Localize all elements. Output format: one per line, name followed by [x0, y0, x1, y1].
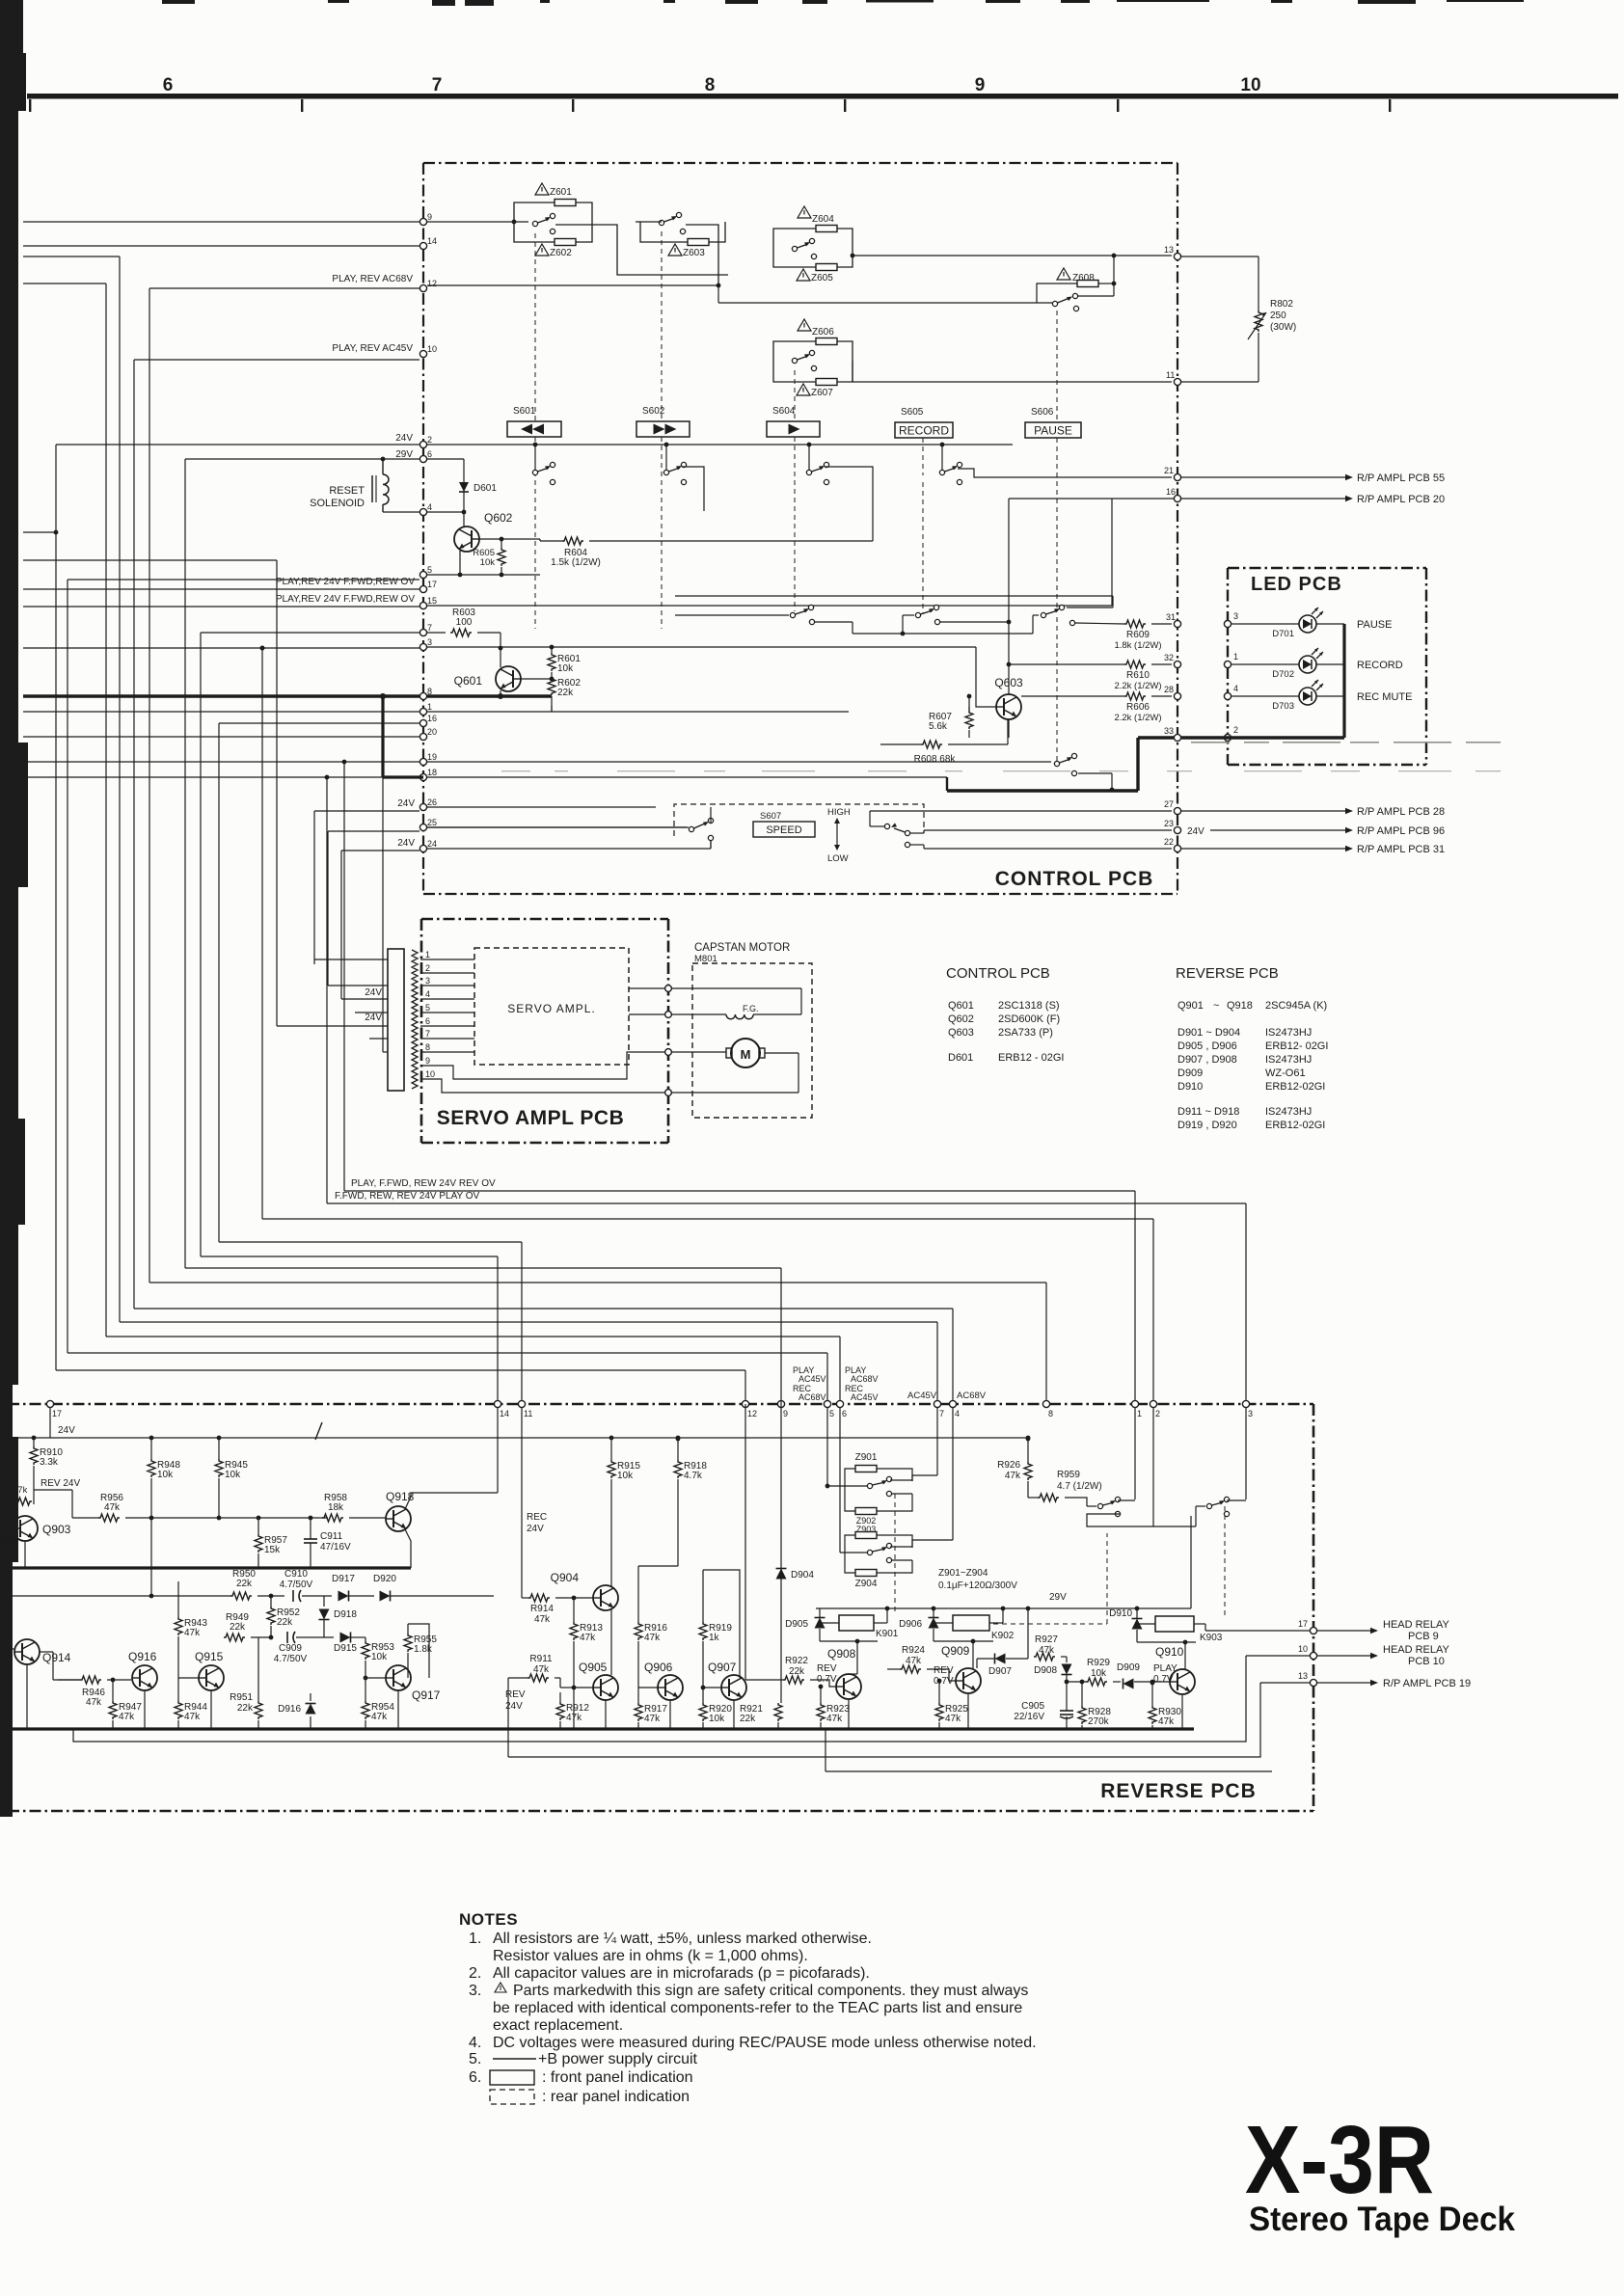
svg-text:R927: R927: [1035, 1634, 1058, 1645]
svg-text:SPEED: SPEED: [766, 824, 801, 836]
wire motor: [672, 1051, 726, 1053]
svg-text:Q914: Q914: [42, 1651, 71, 1664]
wire R/P AMPL PCB 20: [1181, 498, 1345, 500]
svg-text:AC45V: AC45V: [907, 1391, 937, 1401]
svg-text:R926: R926: [997, 1460, 1020, 1471]
resistor R913: [570, 1622, 578, 1640]
wire s607b wires: [869, 811, 871, 826]
wire pin25 row: [427, 826, 687, 828]
svg-text:22k: 22k: [557, 688, 574, 698]
diode D908: [1066, 1657, 1068, 1662]
transistor Q918: [386, 1506, 411, 1531]
svg-text:SOLENOID: SOLENOID: [310, 498, 365, 509]
svg-text:21: 21: [1164, 466, 1174, 475]
svg-text:PAUSE: PAUSE: [1034, 424, 1072, 438]
resistor R914: [528, 1594, 550, 1602]
svg-text:D916: D916: [278, 1704, 301, 1715]
wire Z606 loop: [773, 341, 816, 361]
svg-text:22k: 22k: [236, 1579, 253, 1589]
svg-text:LED PCB: LED PCB: [1251, 574, 1342, 595]
svg-text:RECORD: RECORD: [1357, 660, 1403, 671]
svg-text:17: 17: [427, 580, 437, 589]
svg-text:Q915: Q915: [195, 1650, 224, 1663]
top edge remnants: [162, 0, 195, 4]
svg-text:6: 6: [427, 449, 432, 459]
svg-text:C905: C905: [1021, 1701, 1044, 1712]
wire S601a out: [555, 225, 728, 275]
resistor R911: [528, 1674, 549, 1682]
transistor Q601: [496, 666, 521, 691]
wire pin1 row: [427, 711, 849, 713]
svg-text:Z604: Z604: [812, 214, 834, 225]
wire thick drop: [1136, 738, 1139, 791]
wire 1624 node: [638, 1565, 678, 1567]
wire below rail 1: [73, 1656, 1246, 1742]
fusible resistor Z607: [816, 379, 837, 386]
svg-text:PLAY,REV 24V F.FWD,REW OV: PLAY,REV 24V F.FWD,REW OV: [276, 594, 415, 605]
wire r919 top: [703, 1570, 740, 1678]
svg-text:R911: R911: [529, 1654, 553, 1664]
svg-text:4: 4: [425, 989, 430, 999]
svg-text:HEAD RELAY: HEAD RELAY: [1383, 1619, 1450, 1631]
wire pin2 24V feed: [56, 444, 420, 446]
wire R602 bottom: [551, 696, 553, 712]
switch S607 a: [689, 826, 693, 831]
svg-text:11: 11: [524, 1409, 532, 1418]
svg-text:2SA733 (P): 2SA733 (P): [998, 1027, 1053, 1039]
resistor R610: [1124, 661, 1146, 668]
svg-text:AC45V: AC45V: [798, 1374, 826, 1384]
resistor R929: [1086, 1678, 1107, 1686]
svg-text:D907: D907: [988, 1666, 1012, 1677]
svg-text:2.: 2.: [469, 1965, 481, 1982]
wire pin26 24V feed: [314, 810, 420, 812]
svg-text:D908: D908: [1034, 1665, 1057, 1676]
svg-text:Q917: Q917: [412, 1688, 441, 1702]
svg-text:Q601: Q601: [454, 674, 483, 688]
svg-text:R959: R959: [1057, 1470, 1080, 1480]
relay cell 2 D906 K902: [929, 1618, 939, 1629]
svg-text:8: 8: [705, 75, 716, 95]
svg-text:47k: 47k: [533, 1664, 550, 1675]
wire pin14 feed: [23, 245, 420, 247]
resistor R956: [98, 1514, 120, 1522]
svg-text:47k: 47k: [13, 1485, 28, 1496]
svg-text:Q916: Q916: [128, 1650, 157, 1663]
svg-text:4: 4: [955, 1409, 960, 1418]
wire pin13 row: [853, 255, 1172, 257]
svg-text:12: 12: [747, 1409, 757, 1418]
svg-text:PAUSE: PAUSE: [1357, 619, 1392, 631]
resistor R928: [1078, 1706, 1086, 1724]
fusible resistor Z602: [555, 239, 576, 246]
wire group2 throw: [1245, 1408, 1247, 1499]
wire led cathode bus thick: [1342, 624, 1345, 738]
svg-text:PLAY, REV AC68V: PLAY, REV AC68V: [332, 274, 413, 284]
wire k903 right vert: [1190, 1516, 1192, 1608]
wire pin2 column: [1152, 1408, 1154, 1526]
svg-text:R/P AMPL PCB 55: R/P AMPL PCB 55: [1357, 473, 1445, 484]
svg-text:4.7/50V: 4.7/50V: [280, 1580, 313, 1590]
svg-text:20: 20: [427, 727, 437, 737]
capacitor C905: [1060, 1710, 1073, 1712]
svg-text:7: 7: [939, 1409, 944, 1418]
svg-text:Z901: Z901: [855, 1452, 878, 1463]
svg-text:D917: D917: [332, 1574, 355, 1584]
servo border circles: [665, 986, 672, 992]
svg-text:29V: 29V: [395, 449, 413, 460]
switch S604 contact B: [792, 358, 797, 363]
diode D917: [338, 1591, 349, 1602]
svg-text:8: 8: [425, 1042, 430, 1052]
wire 24V pin23: [1210, 829, 1345, 831]
svg-text:24: 24: [427, 839, 437, 849]
wire pin16 feed: [219, 722, 420, 724]
svg-text:2: 2: [1233, 725, 1238, 735]
servo connector coil: [412, 950, 418, 1089]
wire q905: [605, 1700, 607, 1729]
wire q915 base: [178, 1677, 199, 1679]
svg-text:Z605: Z605: [811, 273, 833, 284]
wire pin8 thick bus: [23, 694, 420, 697]
svg-text:M801: M801: [694, 954, 717, 964]
svg-text:ERB12- 02GI: ERB12- 02GI: [1265, 1040, 1328, 1052]
resistor R954: [362, 1701, 369, 1719]
wire pin7 feed: [201, 632, 420, 634]
svg-text:8: 8: [1048, 1409, 1053, 1418]
wire q904 collector: [610, 1479, 612, 1587]
svg-text:7: 7: [432, 75, 443, 95]
svg-text:Z608: Z608: [1072, 273, 1095, 284]
svg-text:R/P AMPL PCB 28: R/P AMPL PCB 28: [1357, 806, 1445, 818]
resistor R919: [699, 1622, 707, 1640]
svg-text:22k: 22k: [740, 1714, 756, 1724]
svg-text:Q602: Q602: [484, 511, 513, 525]
wire q908: [848, 1699, 850, 1729]
wire pin3 row: [427, 646, 552, 648]
capacitor C910: [292, 1590, 294, 1602]
switch S604 contact A: [792, 246, 797, 251]
svg-text:Q903: Q903: [42, 1523, 71, 1536]
wire rp ampl 19: [1317, 1682, 1370, 1684]
svg-text:PCB 9: PCB 9: [1408, 1631, 1439, 1642]
svg-text:47k: 47k: [104, 1502, 121, 1513]
svg-text:33: 33: [1164, 726, 1174, 736]
svg-text:7: 7: [427, 623, 432, 633]
svg-text:9: 9: [425, 1056, 430, 1066]
wire pin3 feed: [23, 647, 420, 649]
svg-text:HIGH: HIGH: [827, 807, 851, 818]
svg-text:3.: 3.: [469, 1983, 481, 1999]
CAPSTAN MOTOR dashed box: [692, 963, 812, 1118]
svg-text:16: 16: [1166, 487, 1176, 497]
wire s607a out: [710, 807, 712, 824]
wire S602a: [640, 222, 688, 242]
led D703: [1299, 688, 1316, 705]
svg-text:4.: 4.: [469, 2035, 481, 2051]
wire Q601 emitter: [500, 690, 501, 696]
wire Z601 loop: [514, 203, 555, 222]
svg-text:10k: 10k: [709, 1714, 725, 1724]
svg-text:R924: R924: [902, 1645, 925, 1656]
wire R/P AMPL PCB 55: [1181, 476, 1345, 478]
left scan edge bar: [0, 0, 23, 93]
wire Q601 base: [521, 678, 552, 680]
wire below rail 3: [826, 1770, 1272, 1772]
resistor R947: [109, 1701, 117, 1719]
svg-text:S601: S601: [513, 406, 536, 417]
scan smudge row 770: [1191, 742, 1230, 743]
svg-text:K903: K903: [1200, 1633, 1223, 1643]
svg-text:2: 2: [1155, 1409, 1160, 1418]
wire pin15 feed: [23, 606, 420, 608]
svg-text:16: 16: [427, 714, 437, 723]
resistor R930: [1149, 1706, 1156, 1724]
wire R/P AMPL PCB 28: [1181, 810, 1345, 812]
svg-text:47k: 47k: [184, 1712, 201, 1722]
transistor Q603: [996, 694, 1021, 719]
svg-text:22/16V: 22/16V: [1014, 1712, 1044, 1722]
svg-text:Q918: Q918: [386, 1490, 415, 1503]
speed dashed frame: [674, 804, 924, 836]
wire pin24 row: [427, 848, 711, 850]
svg-text:17: 17: [52, 1409, 62, 1418]
svg-text:47k: 47k: [1005, 1471, 1021, 1481]
wire S602a out: [686, 225, 718, 285]
wire head relay 10: [1317, 1655, 1370, 1657]
connector pins control left: [420, 218, 426, 225]
svg-text:IS2473HJ: IS2473HJ: [1265, 1027, 1312, 1039]
svg-text:F.G.: F.G.: [743, 1004, 759, 1013]
wire row2 b out: [940, 621, 1009, 623]
wire servo feeds: [314, 959, 388, 960]
wire r923 top: [820, 1687, 822, 1703]
svg-text:47k: 47k: [1039, 1645, 1055, 1656]
svg-text:D703: D703: [1272, 701, 1294, 712]
svg-text:10k: 10k: [480, 557, 496, 568]
svg-text:24V: 24V: [365, 987, 382, 998]
svg-text:4: 4: [427, 502, 432, 512]
svg-text:D901 ~ D904: D901 ~ D904: [1177, 1027, 1240, 1039]
svg-text:3: 3: [1233, 611, 1238, 621]
svg-text:R610: R610: [1126, 670, 1150, 681]
diode D915: [340, 1633, 351, 1643]
resistor R952: [267, 1607, 275, 1625]
resistor R925: [935, 1703, 943, 1721]
wire Z604 loop: [773, 229, 816, 249]
resistor R943: [175, 1617, 182, 1635]
svg-text:D911 ~ D918: D911 ~ D918: [1177, 1106, 1239, 1118]
svg-text:10k: 10k: [157, 1470, 174, 1480]
wire Z607 out: [852, 361, 853, 382]
svg-text:Z602: Z602: [550, 248, 572, 258]
resistor R922: [783, 1676, 804, 1684]
svg-text:Q908: Q908: [827, 1647, 856, 1661]
svg-text:REV: REV: [934, 1665, 954, 1676]
svg-text:R802: R802: [1270, 299, 1293, 310]
svg-text:47k: 47k: [644, 1633, 661, 1643]
switch S605 row1: [939, 470, 944, 474]
svg-text:47k: 47k: [644, 1714, 661, 1724]
wire pin16 link: [1009, 498, 1174, 500]
diode D918: [323, 1596, 325, 1607]
transistor Q910: [1170, 1669, 1195, 1694]
svg-text:Q910: Q910: [1155, 1645, 1184, 1659]
capacitor C911: [304, 1538, 317, 1540]
svg-text:Q907: Q907: [708, 1661, 737, 1674]
wire staircase bends to REVERSE pins: [56, 1369, 745, 1371]
svg-text:1: 1: [1137, 1409, 1142, 1418]
svg-text:Q603: Q603: [948, 1027, 974, 1039]
svg-text:28: 28: [1164, 685, 1174, 694]
transistor Q602: [454, 527, 479, 552]
svg-text:Resistor values are in ohms (k: Resistor values are in ohms (k = 1,000 o…: [493, 1948, 808, 1964]
svg-text:C911: C911: [320, 1531, 343, 1542]
svg-text:2SC945A (K): 2SC945A (K): [1265, 1000, 1327, 1012]
LED pins: [1224, 620, 1231, 627]
wire Q603 emitter: [1008, 719, 1010, 738]
svg-text:NOTES: NOTES: [459, 1910, 518, 1929]
svg-text:RESET: RESET: [329, 485, 365, 497]
transistor Q914: [14, 1639, 40, 1664]
svg-text:D905 , D906: D905 , D906: [1177, 1040, 1237, 1052]
resistor R912: [556, 1702, 564, 1720]
svg-text:PLAY,REV 24V F.FWD,REW OV: PLAY,REV 24V F.FWD,REW OV: [276, 577, 415, 587]
wire pin19 row: [427, 761, 1051, 763]
diode D909: [1123, 1679, 1134, 1689]
wire q916: [144, 1690, 146, 1729]
relay cell 3 D910 K903: [1132, 1619, 1143, 1630]
svg-text:C909: C909: [279, 1643, 302, 1654]
wire thick +B rail: [13, 1566, 411, 1569]
resistor R908 stub: [11, 1498, 32, 1505]
wire REV24V drop: [71, 1490, 73, 1518]
svg-text:18k: 18k: [328, 1502, 344, 1513]
svg-text:27: 27: [1164, 799, 1174, 809]
switch row2 b: [915, 612, 920, 617]
wire Q602 collector: [463, 512, 465, 527]
svg-text:All capacitor values are in mi: All capacitor values are in microfarads …: [493, 1965, 870, 1982]
svg-text:R922: R922: [785, 1656, 808, 1666]
transistor Q907: [721, 1675, 746, 1700]
switch S607 b: [884, 824, 889, 828]
svg-text:1.8k: 1.8k: [414, 1644, 433, 1655]
svg-text:47k: 47k: [580, 1633, 596, 1643]
wire pin26 row: [427, 806, 656, 808]
svg-text:DC voltages were measured duri: DC voltages were measured during REC/PAU…: [493, 2035, 1037, 2051]
svg-text:: rear panel indication: : rear panel indication: [542, 2089, 690, 2105]
wire row2 c out: [1075, 623, 1124, 624]
svg-text:REV: REV: [817, 1663, 837, 1674]
wire pin12 row: [427, 284, 718, 286]
resistor R604: [562, 537, 583, 545]
svg-text:13: 13: [1298, 1671, 1308, 1681]
resistor R948: [148, 1459, 155, 1477]
wire +B drop to pin18 row: [381, 696, 384, 777]
wire pin5 column: [826, 1408, 828, 1486]
resistor R924: [900, 1665, 921, 1673]
svg-text:47k: 47k: [371, 1712, 388, 1722]
svg-text:HEAD RELAY: HEAD RELAY: [1383, 1644, 1450, 1656]
wire group1 lower: [1087, 1514, 1153, 1526]
wire reverse mid rail: [13, 1727, 1194, 1730]
svg-text:Q909: Q909: [941, 1644, 970, 1658]
svg-text:R609: R609: [1126, 630, 1150, 640]
svg-text:15: 15: [427, 596, 437, 606]
resistor R953: [362, 1641, 369, 1660]
svg-text:D904: D904: [791, 1570, 814, 1580]
wire below rail 2: [508, 1683, 1260, 1757]
svg-text:R/P AMPL PCB 31: R/P AMPL PCB 31: [1357, 844, 1445, 855]
svg-text:26: 26: [427, 797, 437, 807]
wire r950 row: [13, 1595, 151, 1597]
wire q910: [1181, 1694, 1183, 1729]
scan smudge row: [501, 770, 530, 771]
svg-text:10: 10: [1240, 75, 1260, 95]
svg-text:D920: D920: [373, 1574, 396, 1584]
svg-text:M: M: [741, 1047, 751, 1062]
svg-text:4: 4: [1233, 684, 1238, 693]
wire r927 left: [1027, 1608, 1029, 1659]
control right pins: [1174, 473, 1180, 480]
switch S604 row1: [806, 470, 811, 474]
wire pin11 row: [853, 381, 1172, 383]
servo pin 9 wire: [420, 1052, 664, 1079]
svg-text:REC: REC: [527, 1512, 547, 1523]
svg-text:11: 11: [1166, 370, 1175, 380]
rheostat R802: [1255, 311, 1262, 332]
fusible resistor Z603: [688, 239, 709, 246]
svg-text:Z601: Z601: [550, 187, 572, 198]
wire pin6 column: [839, 1408, 841, 1437]
svg-text:24V: 24V: [397, 798, 415, 809]
wire zA out: [912, 1475, 937, 1481]
svg-text:D906: D906: [899, 1619, 922, 1630]
svg-text:Q904: Q904: [551, 1571, 580, 1584]
svg-text:D919 , D920: D919 , D920: [1177, 1120, 1237, 1131]
wire row2 pivot feed: [675, 614, 789, 616]
svg-text:Q901: Q901: [1177, 1000, 1204, 1012]
wire q914: [13, 1648, 14, 1650]
Z cell B: [855, 1532, 877, 1539]
resistor R951: [255, 1701, 262, 1719]
svg-text:Q906: Q906: [644, 1661, 673, 1674]
wire pin20 feed: [23, 736, 420, 738]
svg-text:C910: C910: [284, 1569, 308, 1580]
svg-text:24V: 24V: [395, 433, 413, 444]
fusible resistor Z604: [816, 226, 837, 232]
svg-text:270k: 270k: [1088, 1716, 1110, 1727]
reverse right pins: [1310, 1627, 1316, 1634]
svg-text:10k: 10k: [557, 663, 574, 674]
resistor R603: [450, 629, 472, 636]
svg-text:~: ~: [1213, 1000, 1219, 1012]
Z cell A: [855, 1466, 877, 1472]
svg-text:17: 17: [1298, 1619, 1308, 1629]
wire Q918 emitter: [405, 1529, 411, 1568]
resistor R605: [498, 548, 505, 566]
resistor R923: [817, 1703, 825, 1721]
svg-text:R929: R929: [1087, 1658, 1110, 1668]
svg-text:3: 3: [425, 976, 430, 986]
svg-text:PLAY, F.FWD, REW 24V REV: PLAY, F.FWD, REW 24V REV OV: [351, 1178, 496, 1189]
stray slash mark: [315, 1422, 322, 1440]
svg-text:D909: D909: [1117, 1662, 1140, 1673]
svg-text:Stereo Tape Deck: Stereo Tape Deck: [1249, 2201, 1515, 2238]
svg-text:1: 1: [425, 950, 430, 959]
diode D920: [380, 1591, 391, 1602]
svg-text:6: 6: [842, 1409, 847, 1418]
